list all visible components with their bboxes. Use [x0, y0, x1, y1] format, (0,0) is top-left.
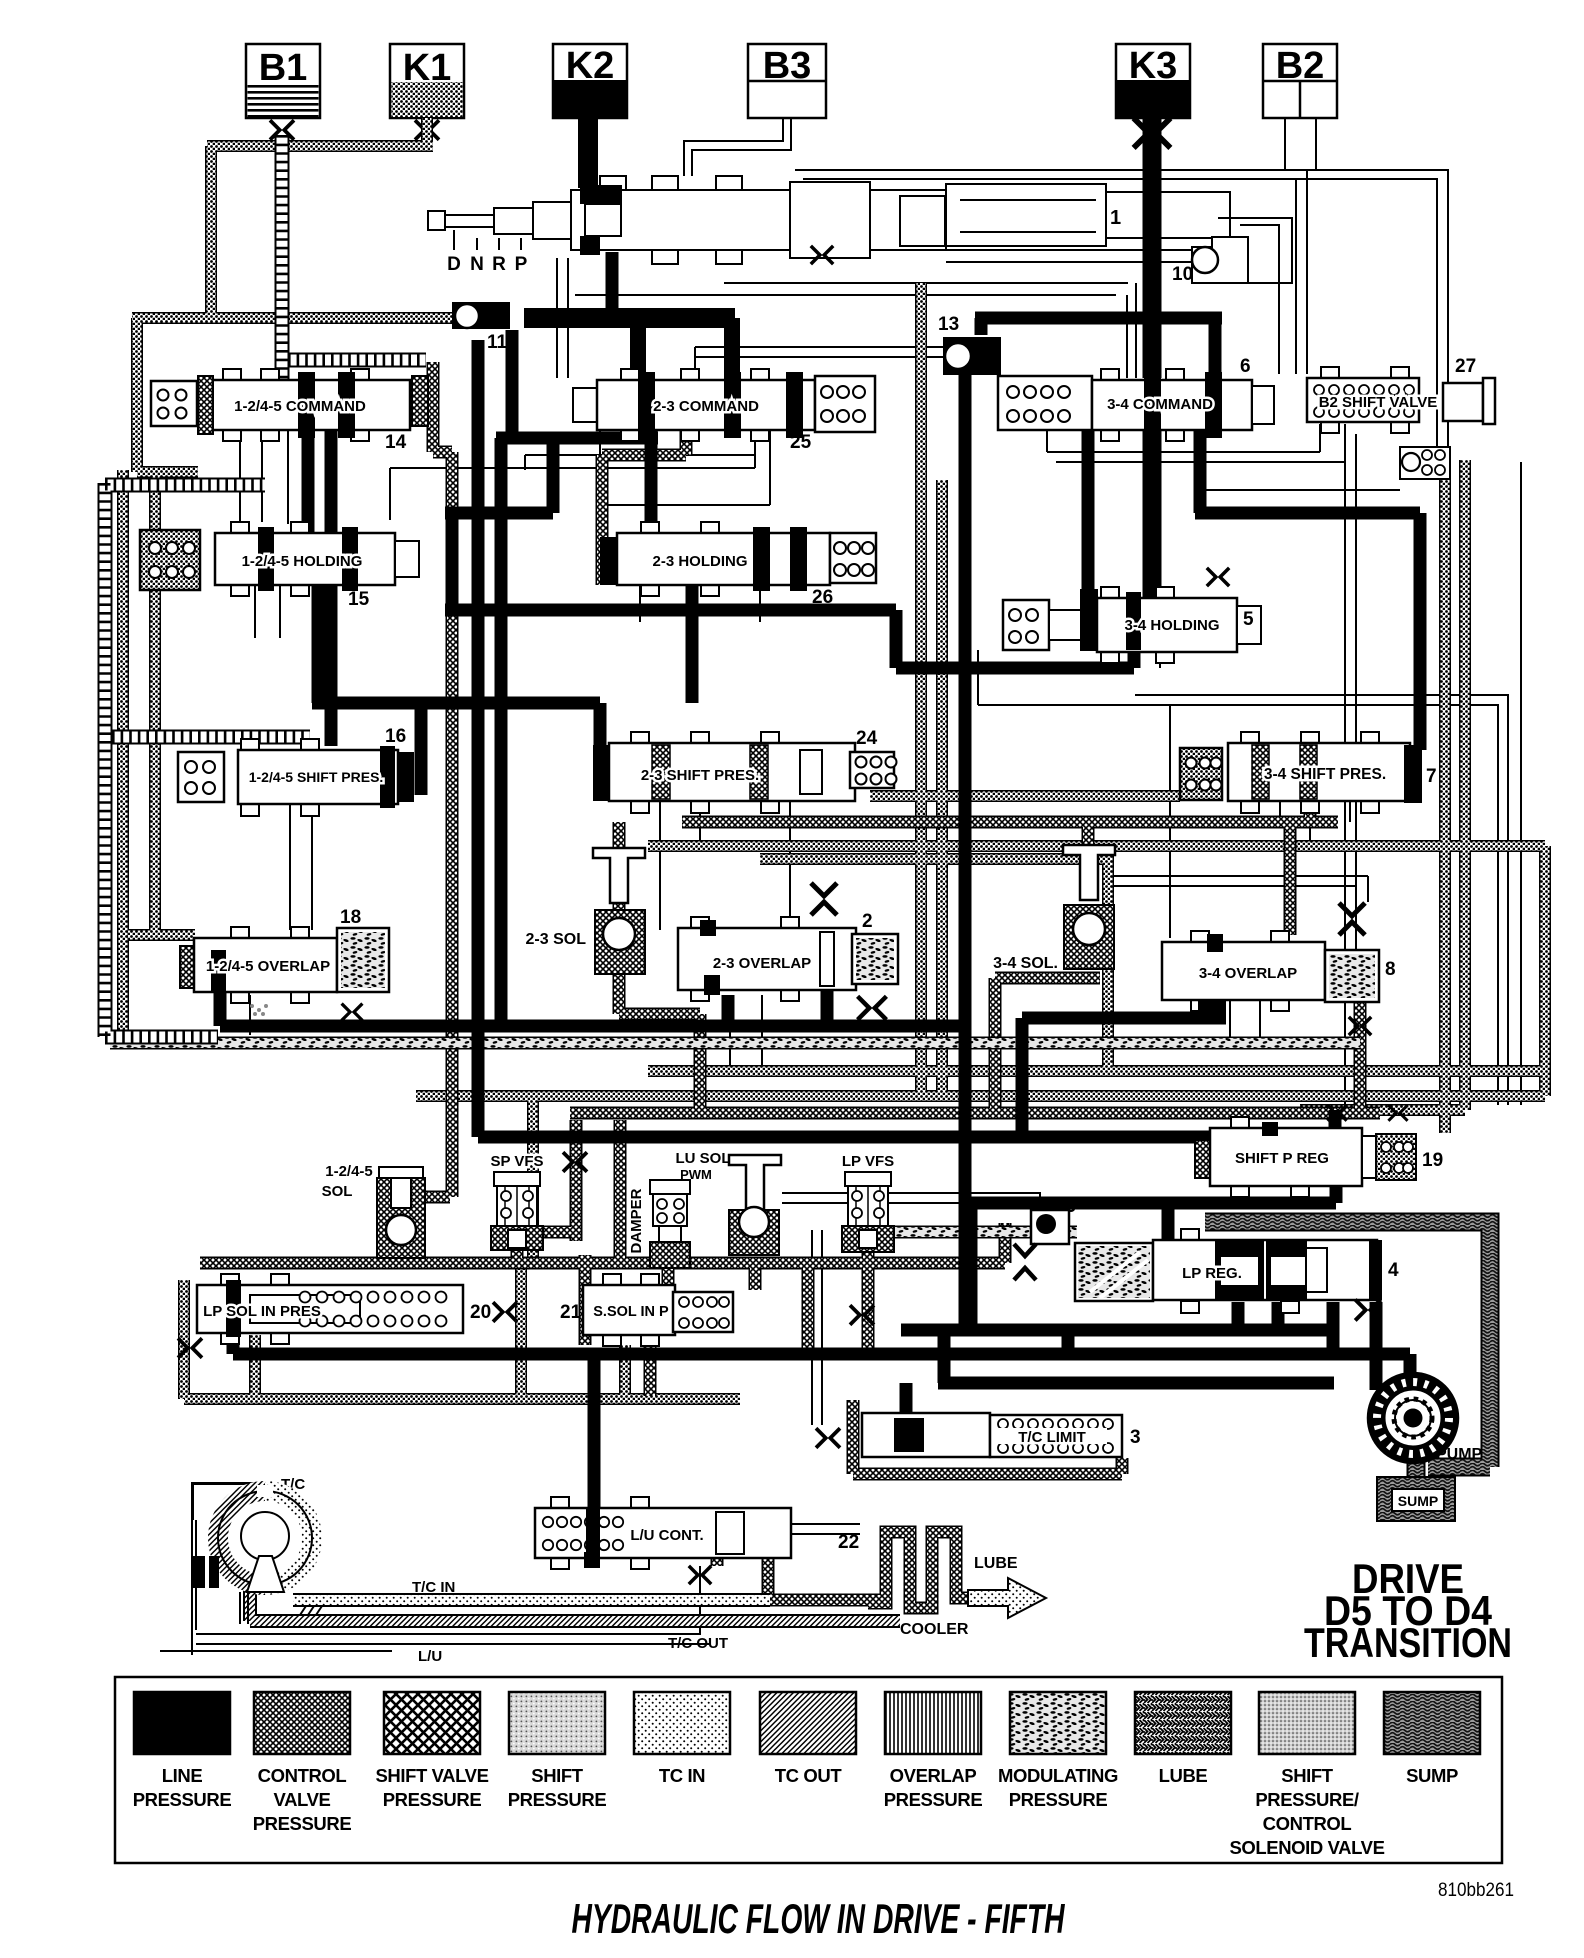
svg-text:1-2/4-5 OVERLAP: 1-2/4-5 OVERLAP: [206, 958, 330, 975]
valve 2-3 COMMAND (25): [573, 369, 875, 453]
svg-text:CONTROL: CONTROL: [258, 1765, 347, 1786]
svg-text:TRANSITION: TRANSITION: [1304, 1619, 1512, 1666]
svg-text:2-3 OVERLAP: 2-3 OVERLAP: [713, 955, 811, 972]
wire lp reg top feed: [1162, 1203, 1175, 1243]
wire node11 south 2: [506, 330, 519, 438]
clutch K1: [390, 44, 464, 118]
svg-text:B3: B3: [763, 45, 812, 87]
svg-text:L/U: L/U: [418, 1648, 442, 1665]
svg-text:VALVE: VALVE: [274, 1789, 331, 1810]
wire 1-2/4-5 holding drops: [255, 585, 280, 638]
svg-text:L/U CONT.: L/U CONT.: [630, 1527, 703, 1544]
svg-text:3-4 SOL.: 3-4 SOL.: [993, 955, 1058, 972]
svg-text:PRESSURE/: PRESSURE/: [1255, 1789, 1359, 1810]
clutch B3: [748, 44, 826, 118]
wire 2-3 holding south: [312, 585, 692, 760]
DAMPER: [628, 1180, 690, 1268]
legend line pressure: [134, 1692, 230, 1754]
wire 2-3 command drops: [390, 430, 770, 520]
wire 1-2/4-5 command to holding: [308, 421, 331, 535]
svg-text:16: 16: [385, 726, 406, 747]
wire lu sol to check9: [782, 1193, 1040, 1210]
legend overlap pressure: [885, 1692, 981, 1754]
wire 2-3 command loop west: [445, 432, 658, 1026]
svg-text:20: 20: [470, 1302, 491, 1323]
pipe tc-in network: [293, 1593, 770, 1607]
svg-text:3-4 HOLDING: 3-4 HOLDING: [1124, 617, 1219, 634]
svg-text:1-2/4-5 HOLDING: 1-2/4-5 HOLDING: [242, 553, 363, 570]
svg-text:PRESSURE: PRESSURE: [884, 1789, 983, 1810]
svg-text:LP SOL IN PRES: LP SOL IN PRES: [203, 1303, 321, 1320]
pipe shift valve pressure network: [200, 362, 1380, 1608]
wire 1-2/4-5 command drops: [240, 430, 288, 524]
pipe overlap ladder network: [105, 135, 426, 1037]
wire valve sleeve bottom: [575, 283, 1128, 295]
legend box: [115, 1677, 1502, 1863]
valve 3-4 OVERLAP (8): [1162, 903, 1396, 1035]
svg-text:LU SOL: LU SOL: [676, 1150, 731, 1167]
clutch B2: [1263, 44, 1337, 118]
valve 1-2/4-5 HOLDING (15): [140, 522, 419, 610]
svg-text:T/C LIMIT: T/C LIMIT: [1018, 1429, 1086, 1446]
svg-text:T/C OUT: T/C OUT: [668, 1635, 728, 1652]
restrictor inside valve: [811, 246, 833, 264]
wire 2-3 overlap drops: [730, 995, 762, 1071]
legend shift pressure control solenoid: [1259, 1692, 1355, 1754]
svg-text:S.SOL IN P: S.SOL IN P: [593, 1304, 669, 1320]
manual valve K2 black land: [580, 185, 622, 204]
DNRP ticks: [454, 230, 521, 250]
svg-text:TC IN: TC IN: [659, 1765, 705, 1786]
legend modulating pressure: [1010, 1692, 1106, 1754]
svg-text:LP REG.: LP REG.: [1182, 1265, 1242, 1282]
legend tc out: [760, 1692, 856, 1754]
wire center trunk south: [959, 375, 972, 1330]
wire 3-4 command loop east: [1195, 430, 1420, 750]
legend control valve pressure: [254, 1692, 350, 1754]
svg-text:K3: K3: [1129, 45, 1178, 87]
svg-text:3-4 OVERLAP: 3-4 OVERLAP: [1199, 965, 1297, 982]
wire L/U line: [196, 1566, 710, 1644]
wire node13 risers: [975, 318, 1222, 378]
svg-text:R: R: [492, 254, 506, 275]
pipe modulating network: [110, 1043, 1360, 1232]
svg-text:K2: K2: [566, 45, 615, 87]
valve 3-4 COMMAND (6): [998, 356, 1274, 441]
svg-text:2-3 COMMAND: 2-3 COMMAND: [653, 398, 759, 415]
solenoid 3-4 SOL: [993, 845, 1115, 972]
wire 1-2/4-5 shift pres drops: [290, 803, 312, 930]
svg-text:24: 24: [856, 728, 878, 749]
wire 3-4 shiftpres drops: [1280, 800, 1350, 850]
svg-text:7: 7: [1426, 766, 1437, 787]
wire pair manual valve to right edge: [795, 170, 1448, 462]
svg-text:9: 9: [1066, 1196, 1077, 1217]
node 13: [938, 314, 1001, 375]
svg-text:22: 22: [838, 1532, 859, 1553]
valve T/C LIMIT (3): [816, 1413, 1141, 1457]
svg-text:26: 26: [812, 587, 833, 608]
valve LP REG (4): [1075, 1229, 1399, 1320]
legend sump: [1384, 1692, 1480, 1754]
svg-text:N: N: [470, 254, 484, 275]
legend lube: [1135, 1692, 1231, 1754]
svg-text:3-4 SHIFT PRES.: 3-4 SHIFT PRES.: [1264, 766, 1386, 783]
svg-text:PRESSURE: PRESSURE: [508, 1789, 607, 1810]
wire valve to junction row: [606, 252, 619, 318]
wire 2-3 shiftpres to overlap: [660, 800, 790, 930]
wire 1-2/4-5 holding south: [318, 574, 331, 746]
cooler arrow: [968, 1578, 1046, 1618]
svg-text:3: 3: [1130, 1427, 1141, 1448]
wire manual valve to 2-3 command: [557, 258, 568, 378]
svg-text:COOLER: COOLER: [900, 1621, 969, 1638]
wire B3 stem: [684, 118, 791, 176]
svg-text:OVERLAP: OVERLAP: [890, 1765, 977, 1786]
wire T/C frame: [160, 1483, 392, 1655]
wire lp reg bottoms: [1238, 1302, 1376, 1390]
valve 1-2/4-5 OVERLAP (18): [180, 907, 389, 1020]
solenoid LU SOL PWM: [676, 1150, 782, 1255]
valve LP SOL IN PRES (20): [178, 1274, 517, 1358]
wire valve to check 10: [940, 250, 1192, 262]
svg-text:HYDRAULIC FLOW IN DRIVE - FIFT: HYDRAULIC FLOW IN DRIVE - FIFTH: [572, 1895, 1066, 1942]
valve 2-3 HOLDING (26): [600, 522, 876, 608]
valve 1-2/4-5 COMMAND (14): [151, 369, 428, 453]
svg-text:4: 4: [1388, 1260, 1399, 1281]
svg-text:2: 2: [862, 911, 873, 932]
wire B2 stems: [1285, 118, 1316, 170]
wire lp feed horizontal: [478, 1110, 1335, 1137]
wire 1-2/4-5 overlap drop: [249, 995, 251, 1035]
wire b2 valve bottom links: [1047, 424, 1400, 490]
manual valve 1: [428, 176, 1230, 264]
valve S.SOL IN P (21): [560, 1274, 874, 1346]
valve B2 SHIFT VALVE (27): [1307, 356, 1495, 479]
wire K3 stem long: [1143, 118, 1162, 600]
svg-text:3-4 COMMAND: 3-4 COMMAND: [1107, 396, 1213, 413]
svg-text:D: D: [447, 254, 461, 275]
wire lu cont stem: [588, 1354, 601, 1533]
pipe control valve pressure network: [123, 118, 1545, 1399]
svg-text:25: 25: [790, 432, 812, 453]
pipe sump network: [1205, 1222, 1490, 1477]
torque converter T/C: [193, 1476, 322, 1630]
svg-text:T/C IN: T/C IN: [412, 1579, 455, 1596]
svg-text:PRESSURE: PRESSURE: [1009, 1789, 1108, 1810]
svg-text:SHIFT P REG: SHIFT P REG: [1235, 1150, 1329, 1167]
valve 2-3 OVERLAP (2): [678, 883, 898, 1001]
svg-text:19: 19: [1422, 1150, 1443, 1171]
svg-text:DAMPER: DAMPER: [628, 1188, 645, 1253]
solenoid 2-3 SOL: [526, 848, 645, 974]
svg-text:11: 11: [487, 332, 508, 353]
clutch K3: [1116, 44, 1190, 118]
svg-text:PRESSURE: PRESSURE: [383, 1789, 482, 1810]
svg-text:SOLENOID VALVE: SOLENOID VALVE: [1229, 1837, 1384, 1858]
svg-text:SHIFT: SHIFT: [1281, 1765, 1334, 1786]
wire 2-3 holding drops: [640, 585, 760, 622]
svg-text:TC OUT: TC OUT: [775, 1765, 843, 1786]
svg-text:B2 SHIFT VALVE: B2 SHIFT VALVE: [1319, 394, 1438, 411]
node 11: [452, 302, 510, 353]
wire right loop around 3-4 shift pres: [1135, 695, 1508, 1105]
wire 3-4 overlap feed: [1022, 1018, 1226, 1137]
svg-text:LUBE: LUBE: [974, 1555, 1018, 1572]
svg-text:SOL: SOL: [322, 1183, 353, 1200]
svg-text:2-3 SOL: 2-3 SOL: [526, 931, 587, 948]
pump: [1368, 1373, 1483, 1463]
svg-text:6: 6: [1240, 356, 1251, 377]
svg-text:10: 10: [1172, 264, 1193, 285]
valve 3-4 HOLDING (5): [1003, 568, 1261, 663]
wire to 3-4 command: [1127, 283, 1136, 378]
legend tc in: [634, 1692, 730, 1754]
svg-text:B2: B2: [1276, 45, 1325, 87]
svg-text:8: 8: [1385, 959, 1396, 980]
svg-text:PRESSURE: PRESSURE: [133, 1789, 232, 1810]
wire header to 2-3 command ports: [638, 318, 732, 380]
line pressure network: [220, 118, 1420, 1533]
valve 2-3 SHIFT PRES (24): [593, 728, 897, 813]
svg-text:SHIFT: SHIFT: [531, 1765, 584, 1786]
restrictor below B1: [270, 120, 294, 140]
clutch K2: [553, 44, 627, 118]
restrictor mid right of 2-3 overlap: [858, 996, 887, 1019]
clutch B1: [246, 44, 320, 118]
wire 3-4 command to holding: [1082, 430, 1095, 590]
wire shiftpres right bar: [415, 703, 428, 795]
valve 3-4 SHIFT PRES (7): [1180, 732, 1437, 813]
thin outline pipes: [160, 118, 1521, 1655]
svg-text:SHIFT VALVE: SHIFT VALVE: [375, 1765, 488, 1786]
svg-text:LP VFS: LP VFS: [842, 1153, 894, 1170]
svg-text:K1: K1: [403, 47, 452, 89]
wire 3-4 holding drops: [978, 650, 1170, 938]
svg-text:1-2/4-5: 1-2/4-5: [325, 1163, 373, 1180]
svg-text:PRESSURE: PRESSURE: [253, 1813, 352, 1834]
svg-text:B1: B1: [259, 47, 308, 89]
svg-text:PUMP: PUMP: [1436, 1446, 1483, 1463]
wire long mid horizontal: [445, 610, 1134, 668]
wire K2 stem: [578, 118, 598, 188]
svg-text:MODULATING: MODULATING: [998, 1765, 1118, 1786]
svg-text:21: 21: [560, 1302, 582, 1323]
svg-text:18: 18: [340, 907, 361, 928]
legend shift pressure: [509, 1692, 605, 1754]
solenoid 1-2/4-5 SOL: [322, 1163, 425, 1258]
wire check10 loop: [1214, 218, 1292, 283]
svg-text:SP VFS: SP VFS: [490, 1153, 543, 1170]
svg-text:14: 14: [385, 432, 407, 453]
svg-text:1-2/4-5 COMMAND: 1-2/4-5 COMMAND: [234, 398, 366, 415]
wire cooler feed: [768, 1524, 860, 1534]
wire B2 to B2 shift valve: [1296, 170, 1307, 374]
legend shift valve pressure: [384, 1692, 480, 1754]
wire pump feeds: [233, 1330, 1410, 1420]
wire node11 south long: [472, 340, 485, 1137]
valve SHIFT P REG (19): [1195, 1105, 1443, 1197]
svg-text:CONTROL: CONTROL: [1263, 1813, 1352, 1834]
check valve 9: [1014, 1196, 1077, 1280]
svg-text:LUBE: LUBE: [1159, 1765, 1208, 1786]
restrictor below K1: [415, 120, 439, 140]
restrictor below K3: [1134, 118, 1171, 148]
wire lu sol to damper area: [812, 1230, 822, 1425]
wire node11 east: [524, 308, 735, 328]
svg-text:13: 13: [938, 314, 959, 335]
svg-text:LINE: LINE: [162, 1765, 203, 1786]
svg-text:2-3 HOLDING: 2-3 HOLDING: [652, 553, 747, 570]
pipe tc-out network: [250, 1590, 900, 1621]
wire 3-4 overlap drops: [1230, 1000, 1260, 1043]
valve L/U CONT (22): [535, 1497, 859, 1584]
valve 1-2/4-5 SHIFT PRES (16): [178, 726, 414, 816]
solenoid SP VFS: [490, 1152, 587, 1250]
svg-text:SUMP: SUMP: [1398, 1493, 1438, 1509]
wire 2-3 command to holding: [645, 430, 658, 537]
wire 2-3 overlap south: [728, 990, 827, 1026]
svg-text:1: 1: [1110, 207, 1121, 229]
check valve 10: [1192, 237, 1248, 283]
sump box: [1377, 1477, 1455, 1521]
svg-text:810bb261: 810bb261: [1438, 1880, 1514, 1901]
svg-text:5: 5: [1243, 609, 1254, 630]
wire shift p reg south: [971, 1185, 1336, 1330]
svg-text:2-3 SHIFT PRES.: 2-3 SHIFT PRES.: [641, 767, 759, 784]
wire 3-4 sol outputs: [1114, 876, 1368, 902]
svg-text:1-2/4-5 SHIFT PRES.: 1-2/4-5 SHIFT PRES.: [249, 769, 384, 785]
wire b2 valve south pipes: [1345, 434, 1356, 1105]
wire right side long verticals: [1520, 462, 1522, 1105]
svg-text:15: 15: [348, 589, 370, 610]
solenoid LP VFS: [842, 1153, 894, 1252]
svg-text:27: 27: [1455, 356, 1476, 377]
wire overlap south trunk: [220, 967, 962, 1026]
svg-text:P: P: [515, 254, 528, 275]
svg-text:SUMP: SUMP: [1406, 1765, 1458, 1786]
wire into node 13: [695, 347, 943, 376]
